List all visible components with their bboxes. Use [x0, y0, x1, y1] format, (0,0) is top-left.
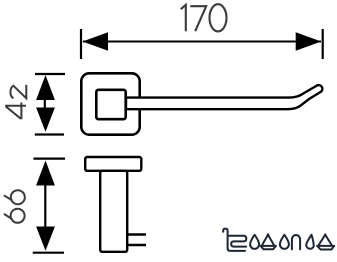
logo letter o (о) second teardrop	[280, 235, 289, 249]
dimension text 42 (rotated)	[5, 85, 26, 119]
dimension 170: left arrowhead	[83, 32, 109, 50]
logo letter a (а) leaning drop	[306, 235, 314, 249]
dimension 170: right extension tick	[322, 29, 324, 59]
dimension text 66 (rotated)	[4, 190, 25, 223]
logo letter o (о) first teardrop	[250, 235, 259, 249]
dimension 66: up arrowhead	[36, 161, 55, 186]
dimension 42: down arrowhead	[36, 108, 55, 132]
top view: bar arm (hockey-stick outline, white filled over plate edge)	[126, 85, 322, 109]
side view: bar stub lower line	[127, 244, 146, 246]
dimension 42: up arrowhead	[36, 75, 55, 100]
dimension 66: down arrowhead	[36, 227, 55, 251]
logo Vodopad (Водопад)	[223, 229, 334, 251]
dimension 170: left extension tick	[80, 29, 82, 59]
top view: post boss (inner square)	[96, 90, 125, 119]
logo letter d (д) last: sail triangle	[319, 234, 332, 245]
dimension 42: top tick	[35, 73, 65, 75]
logo letter d (д) first: sail triangle	[262, 234, 274, 245]
dimension 170: dimension line	[83, 41, 321, 43]
dimension 66: bottom tick	[33, 252, 64, 254]
dimension 66: connector line	[44, 185, 46, 228]
logo letter d (д) first: boat base	[261, 246, 276, 249]
dimension 42: bottom tick	[35, 133, 64, 135]
side view: bar stub upper line	[127, 233, 146, 235]
dimension text 170	[181, 4, 227, 31]
top view: wall plate (outer rounded square)	[81, 73, 139, 134]
logo letter V (В) hooked vertical stroke with baseline foot	[223, 229, 245, 251]
logo letter d (д) last: boat base	[317, 246, 334, 250]
dimension 42: connector line	[44, 99, 46, 109]
logo letter p (п) arch	[292, 235, 300, 249]
side view: plate seen edge-on (top rectangle)	[85, 157, 141, 171]
side view: post body (vertical rectangle)	[100, 171, 127, 252]
dimension 66: top tick	[34, 158, 66, 160]
dimension 170: right arrowhead	[296, 32, 322, 50]
logo letter V (В) zigzag bars	[229, 236, 247, 247]
